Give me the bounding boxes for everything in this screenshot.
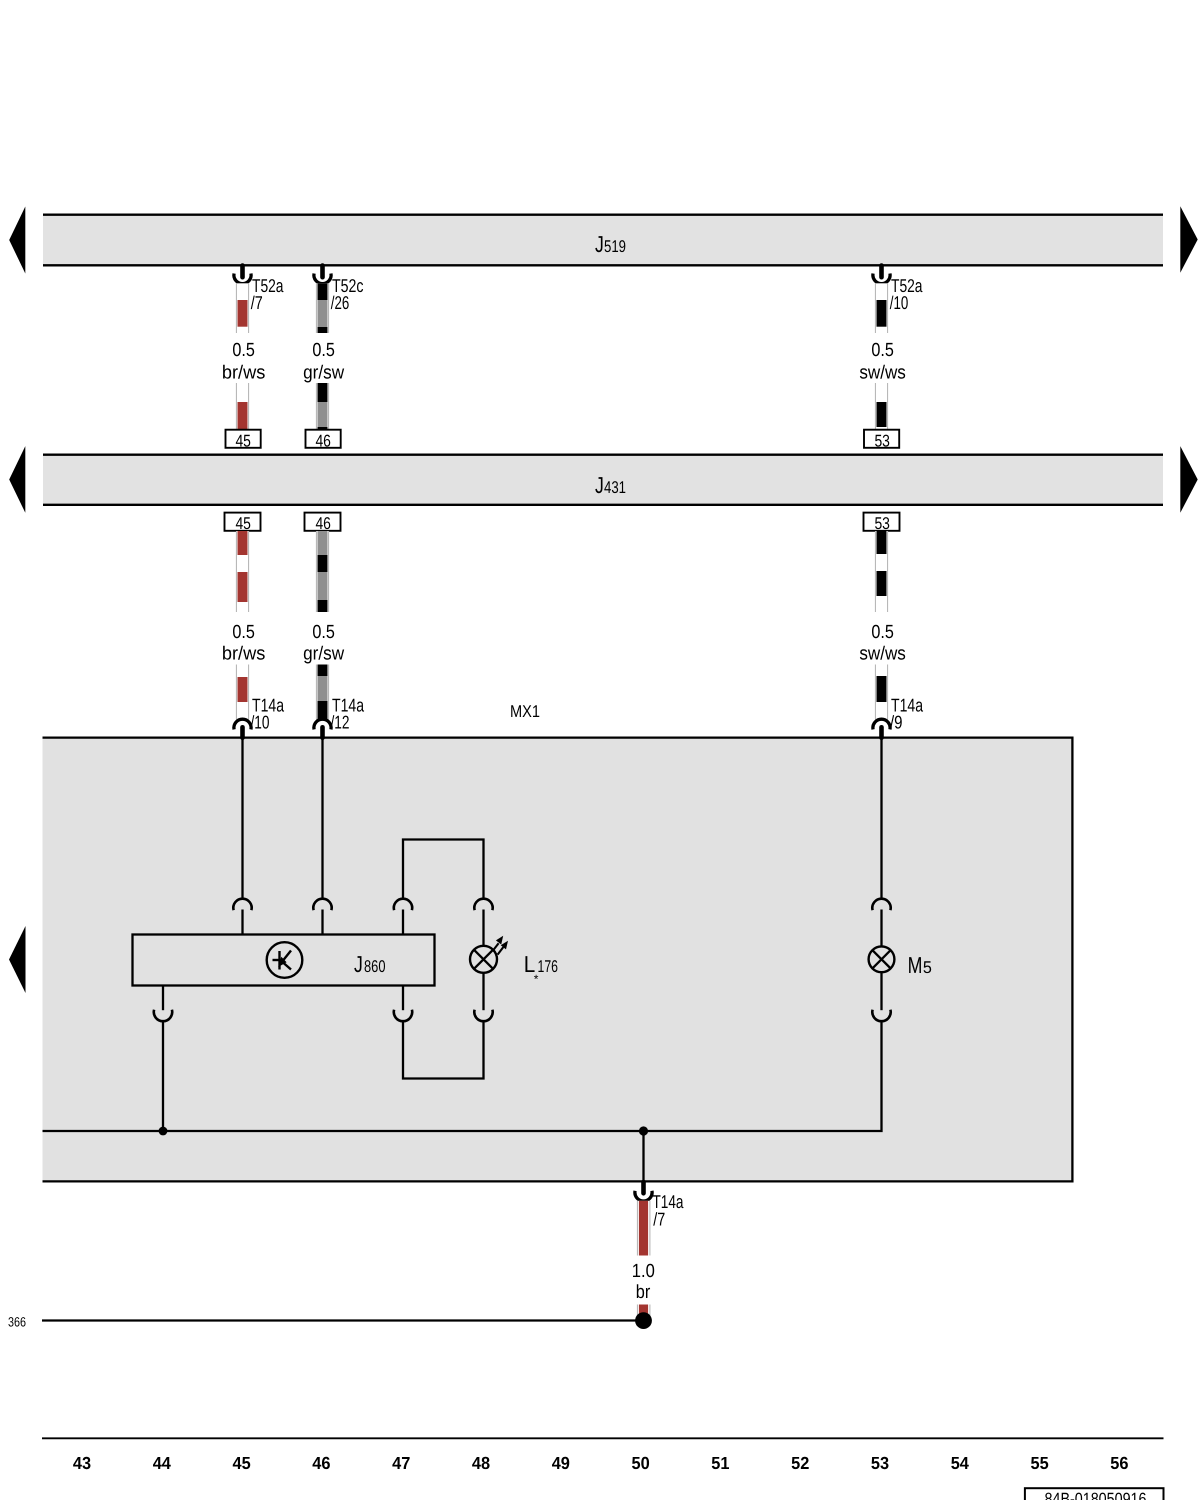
- svg-text:45: 45: [235, 514, 251, 533]
- svg-text:sw/ws: sw/ws: [859, 644, 906, 665]
- svg-text:br/ws: br/ws: [222, 644, 266, 665]
- wire sw/ws segment 4: [875, 665, 888, 720]
- wire below M5: [880, 972, 882, 1010]
- svg-text:50: 50: [632, 1453, 650, 1473]
- connector T52a/7 pin on J519: [234, 266, 284, 313]
- svg-text:gr/sw: gr/sw: [303, 644, 344, 665]
- connector arc at J860 pin 2: [313, 899, 331, 935]
- sensor symbol inside J860: [267, 942, 303, 978]
- wire from J860 ground pin to bus: [162, 1021, 164, 1131]
- lamp M5: [869, 946, 932, 977]
- svg-text:48: 48: [472, 1453, 490, 1473]
- junction node at J860 ground: [159, 1127, 168, 1136]
- wire br 1.0 segment 1: [637, 1201, 650, 1256]
- svg-text:53: 53: [874, 431, 890, 450]
- loop wire from L176 back to J860 pin 4: [403, 1021, 484, 1078]
- svg-text:1.0: 1.0: [632, 1261, 655, 1282]
- loop wire from J860 pin 3 to L176: [403, 840, 484, 900]
- wire gr/sw segment 2: [316, 383, 329, 430]
- svg-text:MX1: MX1: [510, 702, 540, 721]
- svg-text:*: *: [534, 972, 539, 986]
- terminal box 53 (on J431, upper): [864, 430, 899, 451]
- junction node at track 50: [639, 1126, 648, 1135]
- wire size label 0.5 gr/sw: [303, 340, 344, 384]
- wire below L176: [482, 973, 484, 1010]
- svg-text:49: 49: [552, 1453, 570, 1473]
- terminal box 45 (under J431): [225, 513, 261, 534]
- wire sw/ws segment 1: [875, 283, 888, 333]
- svg-text:51: 51: [711, 1453, 729, 1473]
- wire br/ws segment 2: [236, 383, 249, 430]
- control module bar J431: [43, 454, 1163, 507]
- svg-text:0.5: 0.5: [232, 340, 255, 361]
- ground wire 366: [42, 1319, 644, 1321]
- left continuation arrow (MX1): [9, 926, 26, 993]
- wire from T14a/12 to J860: [321, 737, 323, 899]
- svg-text:5: 5: [923, 958, 932, 977]
- svg-text:gr/sw: gr/sw: [303, 362, 344, 383]
- wire br 1.0 segment 2: [637, 1305, 650, 1317]
- right continuation arrow (J431): [1180, 446, 1197, 513]
- svg-text:45: 45: [233, 1453, 251, 1473]
- wire gr/sw segment 1: [316, 283, 329, 333]
- svg-text:sw/ws: sw/ws: [859, 362, 906, 383]
- svg-text:366: 366: [8, 1314, 26, 1329]
- terminal box 46 (on J431, upper): [306, 430, 341, 451]
- left continuation arrow (J431): [9, 446, 25, 513]
- wire from T14a/9 to M5: [880, 737, 882, 899]
- wire gr/sw segment 4: [316, 665, 329, 720]
- connector arc at J860 pin 3: [394, 899, 412, 935]
- svg-text:/26: /26: [331, 292, 350, 313]
- wire br/ws segment 1: [236, 283, 249, 333]
- svg-text:/12: /12: [331, 712, 350, 733]
- svg-text:br: br: [636, 1282, 651, 1303]
- svg-text:J: J: [595, 231, 604, 257]
- svg-text:J: J: [354, 951, 363, 977]
- wire br/ws segment 3: [236, 531, 249, 612]
- svg-text:46: 46: [312, 1453, 330, 1473]
- wire size label 0.5 sw/ws (lower): [859, 622, 906, 665]
- terminal box 45 (on J431, upper): [226, 430, 261, 451]
- connector arc at J860 pin 4: [394, 986, 412, 1022]
- terminal box 53 (under J431): [864, 513, 900, 534]
- svg-text:43: 43: [73, 1453, 91, 1473]
- connector arc below M5: [872, 1010, 890, 1022]
- connector T14a/9 on MX1: [873, 695, 924, 738]
- svg-text:/10: /10: [890, 292, 909, 313]
- connector arc above M5: [872, 899, 890, 947]
- wire size label 0.5 br/ws (lower): [222, 622, 266, 665]
- svg-text:53: 53: [871, 1453, 889, 1473]
- connector T52a/10 pin on J519: [873, 266, 923, 313]
- svg-text:55: 55: [1031, 1453, 1049, 1473]
- svg-text:519: 519: [604, 237, 626, 256]
- svg-text:46: 46: [315, 431, 331, 450]
- connector arc at J860 ground pin: [154, 986, 172, 1022]
- svg-text:/9: /9: [890, 712, 903, 733]
- svg-text:0.5: 0.5: [871, 340, 894, 361]
- wire sw/ws segment 3: [875, 531, 888, 612]
- svg-text:431: 431: [604, 478, 626, 497]
- svg-text:44: 44: [153, 1453, 171, 1473]
- svg-text:/7: /7: [653, 1208, 665, 1229]
- svg-text:0.5: 0.5: [871, 622, 894, 643]
- control module bar J519: [43, 214, 1163, 267]
- wire from T14a/10 to J860: [241, 737, 243, 899]
- connector arc below L176: [474, 1010, 492, 1022]
- svg-text:/10: /10: [251, 712, 270, 733]
- svg-text:84B-018050916: 84B-018050916: [1045, 1490, 1147, 1500]
- lamp L176: [470, 936, 558, 986]
- svg-text:46: 46: [315, 514, 331, 533]
- right continuation arrow (J519): [1180, 206, 1197, 272]
- svg-text:52: 52: [791, 1453, 809, 1473]
- wire size label 0.5 br/ws: [222, 340, 266, 384]
- wire gr/sw segment 3: [316, 531, 329, 612]
- ground node 366: [635, 1312, 652, 1329]
- wire size label 1.0 br: [632, 1261, 655, 1303]
- bottom rule: [42, 1437, 1164, 1439]
- svg-text:0.5: 0.5: [312, 340, 335, 361]
- terminal box 46 (under J431): [305, 513, 341, 534]
- ground bus wire inside MX1: [43, 1021, 882, 1131]
- wire br/ws segment 4: [236, 665, 249, 720]
- connector T14a/7 under MX1: [635, 1182, 684, 1229]
- connector arc above L176: [474, 899, 492, 946]
- connector arc at J860 pin 1: [233, 899, 251, 935]
- connector T14a/10 on MX1: [234, 695, 285, 738]
- svg-text:J: J: [595, 472, 604, 498]
- drop wire to T14a/7: [642, 1131, 644, 1182]
- connector T52c/26 pin on J519: [314, 266, 364, 313]
- svg-text:/7: /7: [251, 292, 263, 313]
- svg-text:860: 860: [364, 957, 386, 976]
- svg-text:M: M: [908, 952, 923, 978]
- svg-text:54: 54: [951, 1453, 969, 1473]
- svg-text:0.5: 0.5: [312, 622, 335, 643]
- svg-text:56: 56: [1110, 1453, 1128, 1473]
- left continuation arrow (J519): [9, 207, 25, 274]
- control unit J860: [133, 935, 435, 986]
- wiring harness box MX1: [43, 702, 1074, 1183]
- svg-text:47: 47: [392, 1453, 410, 1473]
- svg-text:45: 45: [235, 431, 251, 450]
- wire size label 0.5 sw/ws: [859, 340, 906, 384]
- svg-text:br/ws: br/ws: [222, 362, 266, 383]
- wire sw/ws segment 2: [875, 383, 888, 430]
- svg-text:176: 176: [538, 957, 559, 976]
- diagram id box: [1025, 1488, 1164, 1500]
- svg-text:0.5: 0.5: [232, 622, 255, 643]
- wire size label 0.5 gr/sw (lower): [303, 622, 344, 665]
- connector T14a/12 on MX1: [314, 695, 365, 738]
- svg-text:53: 53: [874, 514, 890, 533]
